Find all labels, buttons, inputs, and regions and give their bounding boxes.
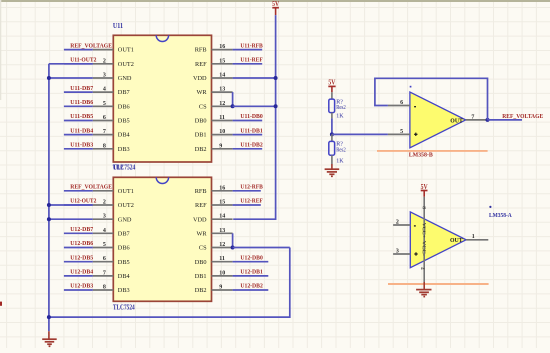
IC U12 (TLC7524) body bbox=[113, 177, 211, 301]
U12 pin 7 (DB4) stub bbox=[93, 270, 131, 280]
svg-text:RFB: RFB bbox=[195, 47, 207, 54]
wire + net label U12-REF (U12 pin 15) bbox=[233, 198, 263, 205]
svg-text:12: 12 bbox=[219, 242, 225, 248]
wire + net label U11-DB0 (U11 pin 11) bbox=[233, 113, 263, 120]
wire: ground rail from U11-OUT2 down to bottom bbox=[48, 64, 50, 332]
wire + net label U12-DB2 (U12 pin 9) bbox=[233, 283, 269, 290]
svg-text:6: 6 bbox=[103, 256, 106, 262]
LM358-A hidden power text VCC- bbox=[421, 241, 427, 256]
designator LM358-A bbox=[489, 206, 512, 219]
svg-text:OUT2: OUT2 bbox=[118, 202, 134, 209]
U11 pin 2 (OUT2) stub bbox=[93, 58, 134, 68]
svg-text:13: 13 bbox=[219, 87, 225, 93]
svg-text:11: 11 bbox=[219, 115, 225, 121]
wire + net label U12-DB5 (U12 pin 6) bbox=[64, 254, 93, 261]
part label LM358-B bbox=[409, 152, 433, 159]
svg-text:U11-DB7: U11-DB7 bbox=[70, 85, 93, 92]
mask bar under LM358-B bbox=[377, 150, 488, 152]
svg-text:DB6: DB6 bbox=[118, 245, 130, 252]
svg-text:3: 3 bbox=[103, 73, 106, 79]
svg-text:10: 10 bbox=[219, 129, 225, 135]
svg-text:Res2: Res2 bbox=[336, 105, 346, 111]
wire: U11 WR/CS to 5V rail bbox=[233, 105, 276, 107]
wire: bottom ground bus bbox=[49, 248, 290, 318]
resistor R? (Res2 1K, upper) bbox=[329, 92, 346, 119]
power symbol 5V (top, net VDD rail) bbox=[272, 1, 279, 15]
LM358-A pin 8 (V+) lead bbox=[420, 197, 426, 282]
wire: U11 OUT2 (pin2) to rail bbox=[49, 63, 93, 65]
svg-text:2: 2 bbox=[396, 220, 399, 226]
junction: rail / bottom bus bbox=[47, 315, 51, 319]
svg-text:U12-OUT2: U12-OUT2 bbox=[70, 198, 96, 205]
wire + net label U11-RFB (U11 pin 16) bbox=[233, 42, 263, 49]
junction: rail / U12 pin3 bbox=[47, 217, 51, 221]
wire + net label U11-DB5 (U11 pin 6) bbox=[64, 113, 93, 120]
wire + net label U11-DB2 (U11 pin 9) bbox=[233, 142, 263, 149]
op-amp LM358-A triangle bbox=[410, 212, 466, 268]
LM358-A pin 4 (V-) number bbox=[419, 267, 425, 270]
svg-text:9: 9 bbox=[219, 285, 222, 291]
svg-text:7: 7 bbox=[103, 129, 106, 135]
svg-text:5V: 5V bbox=[328, 79, 335, 86]
wire + net label U12-DB6 (U12 pin 5) bbox=[64, 240, 93, 247]
svg-text:DB6: DB6 bbox=[118, 103, 130, 110]
svg-text:CS: CS bbox=[199, 103, 207, 110]
svg-text:Res2: Res2 bbox=[336, 147, 346, 153]
cropped net label at left edge bbox=[0, 302, 2, 306]
U11 pin 14 (VDD) stub bbox=[193, 73, 233, 83]
junction: U11 CS bbox=[231, 104, 235, 108]
svg-text:1: 1 bbox=[472, 234, 475, 240]
svg-text:5: 5 bbox=[103, 101, 106, 107]
LM358-A pin 2 (inverting input) bbox=[393, 220, 416, 226]
junction: 5V rail / U11 VDD bbox=[274, 76, 278, 80]
svg-text:U11-REF: U11-REF bbox=[240, 57, 263, 64]
svg-text:3: 3 bbox=[396, 249, 399, 255]
svg-text:U11-DB0: U11-DB0 bbox=[240, 113, 262, 120]
op-amp LM358-B triangle bbox=[410, 86, 466, 148]
svg-text:U12-DB7: U12-DB7 bbox=[70, 226, 93, 233]
wire + net label U11-DB1 (U11 pin 10) bbox=[233, 127, 263, 134]
U12 pin 1 (OUT1) stub bbox=[93, 188, 134, 195]
svg-text:DB3: DB3 bbox=[118, 287, 130, 294]
svg-text:U11-RFB: U11-RFB bbox=[240, 42, 262, 49]
svg-text:U12-RFB: U12-RFB bbox=[240, 184, 262, 191]
U12 pin 13 (WR) stub bbox=[196, 228, 232, 238]
U12 pin 12 (CS) stub bbox=[199, 242, 233, 252]
wire: U11 GND (pin3) to rail bbox=[49, 77, 93, 79]
svg-text:OUT: OUT bbox=[450, 118, 463, 124]
wire: U12 WR to CS tie bbox=[232, 233, 234, 247]
svg-text:U12-DB4: U12-DB4 bbox=[70, 269, 93, 276]
wire + net label U12-DB7 (U12 pin 4) bbox=[64, 226, 93, 233]
U12 pin 8 (DB3) stub bbox=[93, 285, 130, 295]
junction: rail / U12 pin2 bbox=[47, 203, 51, 207]
wire + net label U12-RFB (U12 pin 16) bbox=[233, 184, 263, 191]
U12 pin 2 (OUT2) stub bbox=[93, 200, 134, 210]
svg-text:1K: 1K bbox=[336, 159, 344, 165]
svg-text:U11-DB2: U11-DB2 bbox=[240, 142, 262, 149]
svg-text:U11-DB1: U11-DB1 bbox=[240, 127, 262, 134]
U12 pin 16 (RFB) stub bbox=[195, 185, 233, 195]
svg-text:REF: REF bbox=[195, 61, 207, 68]
svg-text:LM358-B: LM358-B bbox=[409, 152, 433, 159]
resistor R? (Res2 1K, lower) bbox=[329, 134, 346, 164]
U11 pin 1 (OUT1) stub bbox=[93, 47, 134, 54]
LM358-A hidden power text VCC+ bbox=[421, 223, 427, 238]
svg-text:DB2: DB2 bbox=[195, 287, 207, 294]
wire + net label U12-OUT2 (U12 pin 2) bbox=[64, 198, 96, 205]
junction: rail / U11 pin3 bbox=[47, 76, 51, 80]
svg-text:U12-DB3: U12-DB3 bbox=[70, 283, 93, 290]
ground symbol GND1 (bottom left) bbox=[42, 331, 57, 346]
svg-text:REF_VOLTAGE: REF_VOLTAGE bbox=[502, 113, 543, 120]
svg-text:DB5: DB5 bbox=[118, 118, 130, 125]
svg-text:11: 11 bbox=[219, 256, 225, 262]
svg-text:U12: U12 bbox=[113, 164, 124, 172]
svg-text:DB0: DB0 bbox=[195, 259, 207, 266]
wire: feedback loop output to pin 6 bbox=[375, 78, 488, 120]
LM358-A pin 1 (output) bbox=[450, 234, 488, 244]
U11 pin 10 (DB1) stub bbox=[195, 129, 233, 139]
svg-text:3: 3 bbox=[103, 214, 106, 220]
svg-text:VDD: VDD bbox=[193, 216, 207, 223]
U11 pin 13 (WR) stub bbox=[196, 87, 232, 97]
svg-text:13: 13 bbox=[219, 228, 225, 234]
svg-text:WR: WR bbox=[196, 89, 207, 96]
svg-text:VCC-: VCC- bbox=[421, 241, 427, 256]
junction: U12 CS bbox=[231, 246, 235, 250]
svg-text:10: 10 bbox=[219, 270, 225, 276]
wire: divider mid to op-amp pin5 bbox=[332, 133, 388, 135]
wire + net label U11-DB6 (U11 pin 5) bbox=[64, 99, 93, 106]
wire + net label U11-DB7 (U11 pin 4) bbox=[64, 85, 93, 92]
svg-text:16: 16 bbox=[219, 185, 225, 191]
U12 pin 11 (DB0) stub bbox=[195, 256, 233, 266]
wire + net label U11-REF (U11 pin 15) bbox=[233, 57, 263, 64]
svg-text:WR: WR bbox=[196, 230, 207, 237]
U11 pin 8 (DB3) stub bbox=[93, 143, 130, 153]
wire + net label U11-DB3 (U11 pin 8) bbox=[64, 142, 93, 149]
IC U11 (TLC7524) body bbox=[113, 35, 211, 162]
svg-text:OUT2: OUT2 bbox=[118, 61, 134, 68]
LM358-B pin 7 (output) bbox=[450, 114, 487, 124]
ground symbol GND2 (below R divider) bbox=[325, 164, 340, 176]
U11 pin 12 (CS) stub bbox=[199, 101, 233, 111]
svg-text:7: 7 bbox=[471, 114, 474, 120]
part value TLC7524 (U12) bbox=[113, 303, 135, 311]
svg-text:OUT1: OUT1 bbox=[118, 188, 134, 195]
svg-text:12: 12 bbox=[219, 101, 225, 107]
wire: U12 OUT2 (pin2) to rail bbox=[49, 204, 93, 206]
junction: LM358-B output node bbox=[486, 118, 490, 122]
svg-text:GND: GND bbox=[118, 216, 132, 223]
U11 pin 4 (DB7) stub bbox=[93, 87, 130, 97]
svg-text:DB7: DB7 bbox=[118, 89, 130, 96]
svg-text:U12-DB0: U12-DB0 bbox=[240, 254, 262, 261]
svg-text:REF_VOLTAGE: REF_VOLTAGE bbox=[70, 42, 112, 49]
wire + net label U12-DB1 (U12 pin 10) bbox=[233, 269, 269, 276]
wire: 5V rail down to U12 VDD bbox=[233, 15, 275, 219]
svg-text:REF: REF bbox=[195, 202, 207, 209]
svg-text:8: 8 bbox=[420, 206, 426, 209]
wire: R divider midpoint bbox=[331, 118, 333, 134]
power symbol 5V (above R divider) bbox=[328, 79, 335, 92]
svg-text:14: 14 bbox=[219, 214, 225, 220]
svg-text:16: 16 bbox=[219, 44, 225, 50]
svg-text:U11-DB4: U11-DB4 bbox=[70, 127, 93, 134]
U11 pin 6 (DB5) stub bbox=[93, 115, 130, 125]
U12 pin 3 (GND) stub bbox=[93, 214, 132, 224]
wire: U11 VDD (pin14) to 5V rail bbox=[233, 77, 276, 79]
svg-text:VCC+: VCC+ bbox=[421, 223, 427, 238]
wire + net label REF_VOLTAGE (U11 pin 1) bbox=[64, 42, 112, 49]
U11 pin 15 (REF) stub bbox=[195, 58, 233, 68]
svg-text:15: 15 bbox=[219, 200, 225, 206]
svg-text:DB1: DB1 bbox=[195, 132, 207, 139]
svg-text:GND: GND bbox=[118, 75, 132, 82]
svg-text:U11-DB6: U11-DB6 bbox=[70, 99, 93, 106]
svg-text:TLC7524: TLC7524 bbox=[113, 303, 135, 311]
wire: U12 WR/CS to bottom ground bus bbox=[233, 247, 290, 249]
U12 pin 14 (VDD) stub bbox=[193, 214, 233, 224]
svg-text:4: 4 bbox=[103, 228, 106, 234]
svg-text:OUT: OUT bbox=[450, 238, 463, 244]
svg-text:2: 2 bbox=[103, 58, 106, 64]
svg-text:CS: CS bbox=[199, 245, 207, 252]
svg-text:8: 8 bbox=[103, 285, 106, 291]
svg-text:DB3: DB3 bbox=[118, 146, 130, 153]
wire + net label REF_VOLTAGE (U12 pin 1) bbox=[64, 184, 112, 191]
svg-text:U11-OUT2: U11-OUT2 bbox=[70, 57, 96, 64]
junction: divider mid bbox=[330, 132, 334, 136]
wire: U11 WR to CS tie bbox=[232, 92, 234, 106]
wire + net label REF_VOLTAGE (op-amp B output) bbox=[488, 113, 544, 120]
svg-text:U12-REF: U12-REF bbox=[240, 198, 263, 205]
U11 pin 5 (DB6) stub bbox=[93, 101, 130, 111]
svg-text:U12-DB2: U12-DB2 bbox=[240, 283, 262, 290]
svg-text:REF_VOLTAGE: REF_VOLTAGE bbox=[70, 184, 112, 191]
svg-text:DB2: DB2 bbox=[195, 146, 207, 153]
svg-text:2: 2 bbox=[103, 200, 106, 206]
svg-text:6: 6 bbox=[400, 100, 403, 106]
svg-text:RFB: RFB bbox=[195, 188, 207, 195]
U11 pin 9 (DB2) stub bbox=[195, 143, 233, 153]
U11 pin 7 (DB4) stub bbox=[93, 129, 131, 139]
wire: U12 GND (pin3) to rail bbox=[49, 218, 93, 220]
svg-text:DB5: DB5 bbox=[118, 259, 130, 266]
U12 pin 5 (DB6) stub bbox=[93, 242, 130, 252]
svg-text:4: 4 bbox=[103, 87, 106, 93]
svg-text:DB4: DB4 bbox=[118, 132, 131, 139]
U11 pin 16 (RFB) stub bbox=[195, 44, 233, 54]
svg-text:5: 5 bbox=[400, 129, 403, 135]
svg-text:8: 8 bbox=[103, 143, 106, 149]
svg-text:U11-DB5: U11-DB5 bbox=[70, 113, 93, 120]
U12 pin 4 (DB7) stub bbox=[93, 228, 130, 238]
U12 pin 9 (DB2) stub bbox=[195, 285, 233, 295]
wire + net label U11-DB4 (U11 pin 7) bbox=[64, 127, 93, 134]
svg-text:U12-DB6: U12-DB6 bbox=[70, 240, 93, 247]
svg-text:7: 7 bbox=[103, 270, 106, 276]
junction: 5V rail / U11 WR-CS wire bbox=[274, 104, 278, 108]
wire + net label U12-DB4 (U12 pin 7) bbox=[64, 269, 93, 276]
svg-text:9: 9 bbox=[219, 143, 222, 149]
svg-text:LM358-A: LM358-A bbox=[489, 212, 512, 219]
wire + net label U11-OUT2 (U11 pin 2) bbox=[64, 57, 96, 64]
svg-text:DB0: DB0 bbox=[195, 118, 207, 125]
LM358-A pin 3 (non-inverting input) bbox=[393, 249, 418, 256]
wire + net label U12-DB0 (U12 pin 11) bbox=[233, 254, 269, 261]
wire + net label U12-DB3 (U12 pin 8) bbox=[64, 283, 93, 290]
svg-text:U12-DB1: U12-DB1 bbox=[240, 269, 262, 276]
svg-text:14: 14 bbox=[219, 73, 225, 79]
U12 pin 15 (REF) stub bbox=[195, 200, 233, 210]
svg-text:DB4: DB4 bbox=[118, 273, 131, 280]
part value TLC7524 (U11) overlapped by designator U12 bbox=[113, 164, 136, 172]
U12 pin 6 (DB5) stub bbox=[93, 256, 130, 266]
designator U11 bbox=[113, 22, 124, 30]
svg-text:U11: U11 bbox=[113, 22, 124, 30]
svg-text:DB7: DB7 bbox=[118, 230, 130, 237]
LM358-B pin 6 (inverting input) bbox=[388, 100, 416, 107]
mask bar under LM358-A bbox=[388, 283, 489, 285]
svg-text:U11-DB3: U11-DB3 bbox=[70, 142, 93, 149]
svg-text:1K: 1K bbox=[336, 113, 344, 119]
svg-text:6: 6 bbox=[103, 115, 106, 121]
svg-text:DB1: DB1 bbox=[195, 273, 207, 280]
U11 pin 11 (DB0) stub bbox=[195, 115, 233, 125]
LM358-B pin 5 (non-inverting input) bbox=[388, 129, 418, 136]
U12 pin 10 (DB1) stub bbox=[195, 270, 233, 280]
svg-text:U12-DB5: U12-DB5 bbox=[70, 254, 93, 261]
svg-text:5: 5 bbox=[103, 242, 106, 248]
svg-text:OUT1: OUT1 bbox=[118, 47, 134, 54]
U11 pin 3 (GND) stub bbox=[93, 73, 132, 83]
svg-text:VDD: VDD bbox=[193, 75, 207, 82]
power symbol 5V (above LM358-A) bbox=[421, 184, 428, 197]
svg-text:4: 4 bbox=[419, 267, 425, 270]
svg-text:15: 15 bbox=[219, 58, 225, 64]
ground symbol GND3 (below LM358-A) bbox=[416, 282, 431, 297]
